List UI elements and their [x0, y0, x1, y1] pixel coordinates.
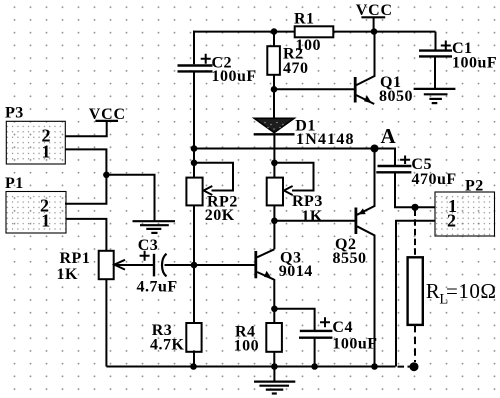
svg-text:VCC: VCC [89, 106, 126, 123]
svg-text:C4: C4 [332, 319, 353, 336]
trimmer RP1 [99, 251, 114, 279]
svg-text:8050: 8050 [379, 88, 413, 105]
node junction C4 bottom rail [311, 363, 318, 370]
svg-text:100uF: 100uF [452, 55, 497, 72]
arrow RP3 wiper [284, 186, 293, 195]
node junction R2 bottom / Q1 base [271, 86, 278, 93]
node junction Q3 collector / Q2 base [271, 218, 278, 225]
wire VCC stub top [373, 17, 375, 31]
VCC symbol top [356, 2, 393, 19]
svg-text:2: 2 [447, 211, 456, 231]
node junction R4 bottom rail [271, 363, 278, 370]
wire C1 drop [435, 32, 437, 50]
ground (main) [254, 367, 295, 394]
node junction Q2 collector bottom rail [371, 363, 378, 370]
capacitor C3 [140, 251, 167, 277]
node junction ground branch [103, 172, 110, 179]
capacitor C1 [419, 41, 452, 57]
wire dashed bottom rail stub [398, 366, 413, 368]
node junction P2 pin1 / RL top [411, 204, 418, 211]
svg-text:R1: R1 [294, 11, 315, 28]
wire Q1 base [274, 88, 354, 90]
trimmer RP2 [186, 178, 202, 206]
connector P1 [5, 175, 66, 233]
wire Q2 base to Q3 collector [274, 220, 354, 222]
svg-text:=10Ω: =10Ω [446, 279, 496, 303]
wire C2 top drop [193, 31, 195, 65]
capacitor C5 [376, 156, 411, 173]
wire P1 pin1 to RP1 [66, 219, 107, 251]
arrow RP2 wiper [204, 186, 213, 195]
svg-text:9014: 9014 [279, 263, 313, 280]
resistor RL [408, 257, 423, 325]
svg-text:1N4148: 1N4148 [296, 131, 355, 148]
wire P3 pin1 down to P1 pin2 [65, 149, 106, 203]
ground (C1) [414, 89, 456, 103]
wire C4 bottom [314, 339, 316, 367]
wire dashed P2 pin1 to RL [414, 210, 416, 258]
svg-text:8550: 8550 [333, 250, 367, 267]
node junction A [371, 145, 379, 153]
wire D1 cathode to RP3 [273, 134, 275, 178]
node junction RP2 top [191, 160, 198, 167]
wire to left ground [106, 175, 154, 221]
resistor R3 [186, 323, 201, 352]
wire D1 anode drop [273, 89, 275, 119]
svg-text:470: 470 [283, 60, 309, 77]
arrow RP1 wiper [114, 260, 125, 270]
svg-text:1K: 1K [57, 266, 79, 283]
wire C5 bottom to P2 pin1 [395, 173, 436, 208]
node junction R3 bottom rail [190, 363, 197, 370]
wire dashed RL bottom [414, 325, 416, 367]
transistor Q1 [355, 32, 374, 104]
wire C3 to Q3 base [165, 264, 255, 266]
connector P2 [435, 178, 495, 237]
wire RP1 bottom to bottom rail [105, 279, 107, 366]
connector P3 [5, 105, 65, 165]
diode D1 [254, 118, 295, 134]
node junction R2 top [271, 28, 278, 35]
node junction RP3 top [271, 160, 278, 167]
wire bias rail (C2/RP2 to node A branch) [194, 149, 395, 166]
resistor R2 [267, 46, 280, 75]
svg-text:R: R [426, 279, 440, 303]
wire P3 pin2 to VCC [65, 121, 107, 136]
trimmer RP3 [267, 178, 283, 206]
label RL=10ohm [426, 279, 497, 308]
capacitor C4 [299, 317, 332, 337]
svg-text:RP1: RP1 [60, 250, 91, 267]
wire RP2 bottom to R3 top [193, 205, 195, 324]
wire bottom rail [106, 366, 395, 368]
node junction Q3 emitter / R4 / C4 [271, 306, 278, 313]
svg-text:P2: P2 [465, 178, 484, 195]
svg-text:P1: P1 [5, 175, 24, 192]
svg-text:100uF: 100uF [332, 335, 377, 352]
wire top rail from C2 corner to C1 corner [193, 31, 436, 33]
wire C2 bottom to RP2 top (through junctions) [193, 72, 195, 178]
wire RP1 wiper to C3 [115, 264, 153, 266]
svg-text:1K: 1K [301, 208, 323, 225]
svg-text:4.7K: 4.7K [150, 337, 185, 354]
wire R3 bottom [193, 350, 195, 366]
wire RP3 bottom to Q3 collector [273, 205, 275, 250]
node junction RL bottom [410, 362, 419, 371]
svg-text:1: 1 [42, 142, 51, 162]
svg-text:A: A [381, 124, 397, 148]
svg-text:4.7uF: 4.7uF [137, 279, 178, 296]
capacitor C2 [178, 54, 213, 72]
svg-text:1: 1 [41, 211, 50, 231]
resistor R1 [295, 26, 334, 37]
wire RP3 wiper loop [274, 163, 313, 191]
ground (left) [133, 221, 176, 233]
svg-text:100: 100 [234, 338, 260, 355]
wire P2 pin2 to bottom rail [396, 221, 436, 367]
transistor Q3 [256, 249, 274, 279]
wire to C4 [274, 309, 314, 331]
svg-text:20K: 20K [205, 207, 235, 224]
transistor Q2 [356, 149, 375, 367]
wire R2 vertical [273, 32, 275, 90]
node junction C2/bias rail [191, 145, 198, 152]
svg-text:C3: C3 [138, 237, 159, 254]
svg-text:100uF: 100uF [212, 68, 257, 85]
svg-text:470uF: 470uF [412, 171, 457, 188]
wire RP2 wiper loop [194, 163, 233, 191]
resistor R4 [266, 323, 282, 352]
node junction VCC rail [371, 28, 378, 35]
wire C1 to ground [434, 58, 436, 89]
VCC symbol left [89, 106, 126, 123]
node junction C3 / RP2 bottom / R3 [191, 262, 198, 269]
svg-text:P3: P3 [5, 105, 24, 122]
wire Q3 emitter down [273, 279, 275, 367]
svg-text:VCC: VCC [356, 2, 393, 19]
